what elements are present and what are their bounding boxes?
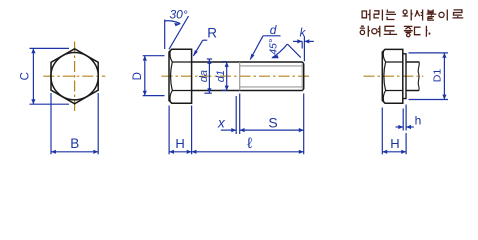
dimension B extension line right xyxy=(97,93,99,154)
dimension l extension line right (tip) xyxy=(303,94,305,155)
shank stub top edge xyxy=(406,61,419,63)
bolt head outline side view xyxy=(169,49,192,103)
30 degree angle vertical leg xyxy=(164,20,166,50)
syllable DA xyxy=(415,26,428,37)
dimension d1 extension tick bottom xyxy=(222,89,227,91)
x arrowhead xyxy=(231,128,236,132)
dimension da arrow bottom xyxy=(207,88,211,93)
30 degree angle slant leg xyxy=(169,16,189,49)
dimension B extension line left xyxy=(50,93,52,154)
dimension H extension line right (washer head) xyxy=(405,133,407,154)
45 degree chamfer extension line xyxy=(287,44,300,58)
dimension S right arrow xyxy=(299,128,304,132)
syllable BUT xyxy=(427,10,437,21)
head chamfer arc top facet xyxy=(170,51,172,62)
svg-text:H: H xyxy=(175,136,184,151)
svg-text:x: x xyxy=(217,116,226,131)
dimension h extension line right xyxy=(405,105,407,131)
Korean note line 1: meo-ri-neun wa-syeo-but-i-ro xyxy=(362,10,463,21)
hexagon head end view xyxy=(51,49,98,104)
washer-faced head hex outline xyxy=(382,49,403,103)
svg-text:45°: 45° xyxy=(268,39,280,55)
syllable MEO xyxy=(362,10,370,21)
dimension D extension line bottom xyxy=(143,95,165,97)
washer face disc xyxy=(403,54,406,99)
dimension C arrow top xyxy=(31,48,35,53)
thread root line top xyxy=(240,65,303,67)
svg-text:C: C xyxy=(19,72,31,80)
syllable I xyxy=(439,10,447,21)
k left arrowhead xyxy=(297,39,302,43)
tip chamfer inner edge xyxy=(301,64,303,90)
center line of hex end view (horizontal) xyxy=(43,75,105,77)
shank top edge xyxy=(192,61,303,63)
dimension l line xyxy=(192,151,304,153)
center line of hex end view (vertical) xyxy=(74,42,76,112)
dimension x leader segment xyxy=(221,129,236,131)
dimension B arrow left xyxy=(51,150,56,154)
tip chamfer top xyxy=(302,62,303,63)
dimension C arrow bottom xyxy=(31,99,35,104)
dimension D1 arrow top xyxy=(442,53,446,58)
dimension C line xyxy=(32,48,34,104)
45 degree angle arc xyxy=(272,44,287,58)
h left arrowhead xyxy=(398,125,403,129)
l right arrow xyxy=(299,150,304,154)
svg-text:ℓ: ℓ xyxy=(247,135,252,152)
dimension k right leader xyxy=(304,40,313,42)
dimension x extension line right (thread boundary extended) xyxy=(239,94,241,135)
svg-text:D: D xyxy=(132,72,144,80)
washer head chamfer arc bottom facet xyxy=(383,91,385,102)
svg-text:k: k xyxy=(300,28,307,40)
break line squiggle xyxy=(418,62,419,92)
Korean note line 2: ha-yeo-do joh-da xyxy=(360,26,431,37)
svg-text:d1: d1 xyxy=(215,70,227,82)
head facet line lower xyxy=(172,90,192,92)
H left arrow (washer head) xyxy=(382,150,387,154)
head chamfer arc bottom facet xyxy=(170,91,172,102)
dimension H line (washer head) xyxy=(382,151,406,153)
dimension x extension line left xyxy=(235,96,237,134)
dimension H extension line left (washer head) xyxy=(381,108,383,155)
washer head facet line upper xyxy=(385,61,403,63)
dimension da arrow top xyxy=(207,59,211,64)
syllable WA xyxy=(403,10,413,21)
leader line d diagonal xyxy=(250,36,263,60)
dimension D extension line top xyxy=(143,55,165,57)
dimension D1 arrow bottom xyxy=(442,95,446,100)
dimension H extension line left (bolt) xyxy=(168,106,170,155)
dimension H extension line right (bolt, bearing face) xyxy=(191,106,193,155)
syllable NEUN xyxy=(386,10,396,20)
dimension B line xyxy=(51,151,98,153)
svg-text:R: R xyxy=(207,25,217,40)
dimension D line xyxy=(144,56,146,96)
washer head facet line lower xyxy=(385,90,403,92)
svg-text:D1: D1 xyxy=(432,69,444,83)
dimension D arrow top xyxy=(143,56,147,61)
dimension h left leader xyxy=(396,126,404,128)
svg-text:H: H xyxy=(390,136,399,151)
R leader arrowhead xyxy=(193,50,198,56)
syllable DO xyxy=(384,26,397,34)
dimension B arrow right xyxy=(93,150,98,154)
dimension H line (bolt) xyxy=(169,151,192,153)
thread root line bottom xyxy=(240,86,303,88)
svg-text:B: B xyxy=(70,136,79,151)
30 degree angle arc xyxy=(165,21,181,24)
svg-text:da: da xyxy=(198,70,210,82)
dimension D1 extension line bottom xyxy=(409,99,449,101)
washer head chamfer arc middle facet xyxy=(384,62,386,91)
shank bottom edge xyxy=(192,90,303,92)
dimension da extension tick bottom xyxy=(204,92,211,94)
syllable JOH xyxy=(404,26,413,36)
svg-text:S: S xyxy=(268,114,277,130)
center line of washer-faced head view xyxy=(364,75,424,77)
tip chamfer bottom xyxy=(302,89,303,90)
washer head chamfer arc top facet xyxy=(383,51,385,62)
dimension d1 arrow top xyxy=(225,62,229,67)
svg-text:h: h xyxy=(415,113,422,127)
dimension h right leader xyxy=(406,126,414,128)
k right arrowhead xyxy=(304,39,309,43)
svg-text:d: d xyxy=(270,23,277,37)
dimension k extension line left xyxy=(301,41,303,48)
dimension d1 line xyxy=(226,62,228,91)
head facet line upper xyxy=(172,61,192,63)
dimension da line xyxy=(208,59,210,93)
45 degree arc arrowhead xyxy=(271,55,279,58)
leader line R elbow xyxy=(203,39,207,41)
shank stub bottom edge xyxy=(406,90,419,92)
dimension D1 line xyxy=(443,53,445,100)
H right arrow xyxy=(187,150,192,154)
head chamfer arc middle facet xyxy=(171,62,173,91)
chamfer circle on head end view xyxy=(51,52,98,99)
leader line R diagonal xyxy=(193,40,202,56)
leader line d elbow xyxy=(263,35,281,37)
H right arrow (washer head) xyxy=(401,150,406,154)
dimension d1 extension tick top xyxy=(222,61,227,63)
h right arrowhead xyxy=(406,125,411,129)
dimension D1 extension line top xyxy=(409,52,449,54)
dimension D arrow bottom xyxy=(143,91,147,96)
syllable SYEO xyxy=(415,10,423,21)
dimension S line xyxy=(240,129,304,131)
thread boundary line xyxy=(239,62,241,91)
syllable HA xyxy=(360,26,370,37)
dimension d1 arrow bottom xyxy=(225,86,229,91)
d leader arrowhead xyxy=(250,54,255,61)
tip face xyxy=(303,63,305,89)
dimension k extension line right xyxy=(303,37,305,62)
dimension C extension line bottom xyxy=(30,103,70,105)
dimension k left leader xyxy=(293,40,302,42)
syllable YEO xyxy=(372,26,380,37)
svg-text:30°: 30° xyxy=(170,7,188,21)
dimension S left arrow xyxy=(240,128,245,132)
center line of bolt side view xyxy=(162,75,312,77)
period xyxy=(429,33,431,35)
30 degree arc arrowhead xyxy=(174,23,181,26)
H left arrow xyxy=(169,150,174,154)
l left arrow xyxy=(192,150,197,154)
dimension C extension line top xyxy=(30,47,70,49)
dimension da extension tick top xyxy=(207,58,212,60)
syllable RI xyxy=(374,10,382,21)
syllable RO xyxy=(453,10,464,18)
dimension h extension line left xyxy=(402,109,404,131)
